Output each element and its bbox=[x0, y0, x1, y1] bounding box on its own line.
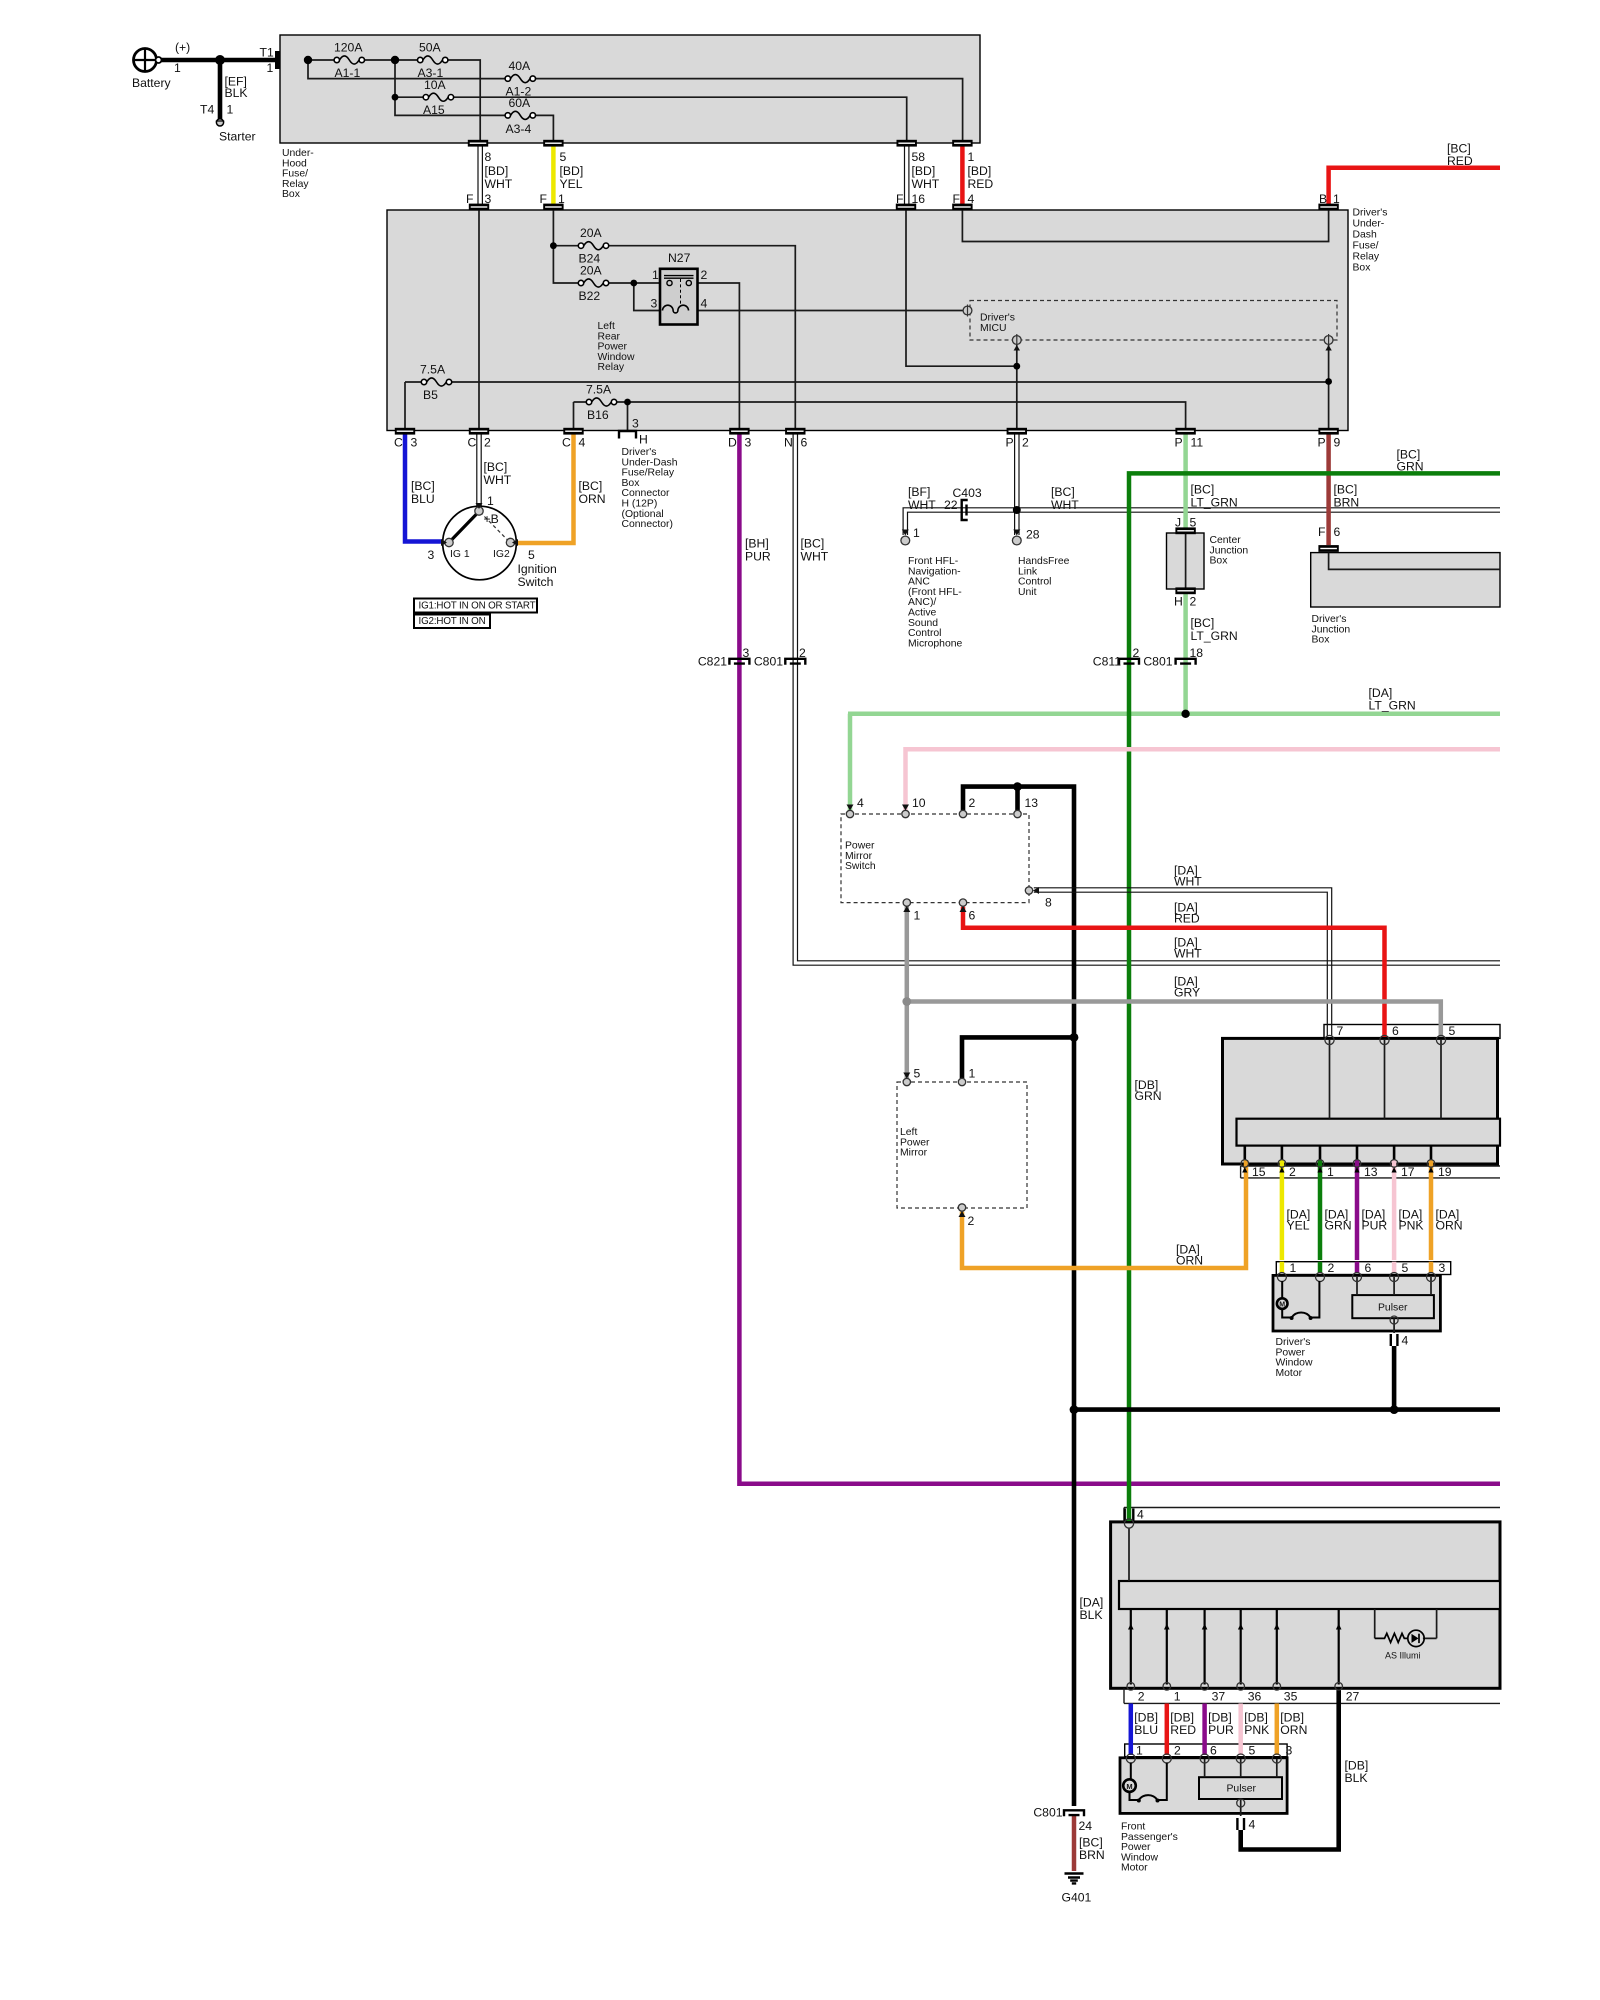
svg-text:1: 1 bbox=[1174, 1690, 1181, 1704]
svg-text:1: 1 bbox=[1327, 1165, 1334, 1179]
svg-text:[BC]: [BC] bbox=[801, 537, 825, 551]
svg-text:ORN: ORN bbox=[1280, 1723, 1307, 1737]
svg-text:5: 5 bbox=[1402, 1261, 1409, 1275]
svg-text:Box: Box bbox=[1210, 556, 1229, 567]
svg-text:Ignition: Ignition bbox=[518, 562, 557, 576]
svg-text:[BC]: [BC] bbox=[411, 479, 435, 493]
svg-text:BLU: BLU bbox=[1134, 1723, 1158, 1737]
svg-text:24: 24 bbox=[1079, 1819, 1093, 1833]
svg-text:B5: B5 bbox=[423, 388, 438, 402]
svg-text:C: C bbox=[394, 436, 403, 450]
svg-text:IG1:HOT IN ON OR START: IG1:HOT IN ON OR START bbox=[419, 601, 536, 612]
svg-text:F: F bbox=[540, 192, 547, 206]
svg-text:Microphone: Microphone bbox=[908, 638, 963, 649]
svg-text:BRN: BRN bbox=[1334, 496, 1360, 510]
svg-text:3: 3 bbox=[411, 436, 418, 450]
svg-text:Connector): Connector) bbox=[622, 519, 673, 530]
svg-text:3: 3 bbox=[651, 297, 658, 311]
svg-text:H: H bbox=[639, 433, 648, 447]
svg-text:16: 16 bbox=[912, 192, 926, 206]
svg-text:28: 28 bbox=[1026, 528, 1040, 542]
svg-text:27: 27 bbox=[1346, 1690, 1360, 1704]
svg-text:36: 36 bbox=[1248, 1690, 1262, 1704]
svg-text:3: 3 bbox=[1286, 1744, 1293, 1758]
svg-text:B: B bbox=[1319, 192, 1327, 206]
svg-text:B16: B16 bbox=[587, 408, 609, 422]
svg-text:[BC]: [BC] bbox=[484, 460, 508, 474]
svg-text:MICU: MICU bbox=[980, 323, 1007, 334]
svg-text:Relay: Relay bbox=[598, 362, 625, 373]
svg-text:4: 4 bbox=[579, 436, 586, 450]
svg-text:1: 1 bbox=[969, 1067, 976, 1081]
svg-text:13: 13 bbox=[1025, 796, 1039, 810]
svg-text:2: 2 bbox=[1328, 1261, 1335, 1275]
svg-text:IG2: IG2 bbox=[493, 549, 510, 560]
svg-text:RED: RED bbox=[1170, 1723, 1196, 1737]
svg-text:4: 4 bbox=[857, 796, 864, 810]
svg-text:WHT: WHT bbox=[1174, 875, 1202, 889]
svg-text:1: 1 bbox=[267, 61, 274, 75]
svg-text:[BD]: [BD] bbox=[912, 164, 936, 178]
svg-text:2: 2 bbox=[1174, 1744, 1181, 1758]
svg-text:RED: RED bbox=[1174, 912, 1200, 926]
svg-text:G401: G401 bbox=[1062, 1891, 1092, 1905]
svg-text:F: F bbox=[896, 192, 903, 206]
svg-text:22: 22 bbox=[944, 498, 958, 512]
svg-text:2: 2 bbox=[799, 646, 806, 660]
svg-text:5: 5 bbox=[1449, 1024, 1456, 1038]
svg-text:3: 3 bbox=[632, 417, 639, 431]
svg-text:F: F bbox=[466, 192, 473, 206]
svg-text:6: 6 bbox=[1210, 1744, 1217, 1758]
svg-text:C: C bbox=[468, 436, 477, 450]
svg-text:RED: RED bbox=[968, 177, 994, 191]
svg-text:2: 2 bbox=[1190, 595, 1197, 609]
svg-text:Box: Box bbox=[282, 189, 301, 200]
svg-text:1: 1 bbox=[227, 103, 234, 117]
svg-text:Relay: Relay bbox=[1353, 252, 1380, 263]
svg-text:Battery: Battery bbox=[132, 76, 172, 90]
svg-text:A1-1: A1-1 bbox=[335, 66, 361, 80]
svg-text:Driver's: Driver's bbox=[1353, 208, 1388, 219]
svg-text:PNK: PNK bbox=[1244, 1723, 1269, 1737]
svg-text:A3-4: A3-4 bbox=[506, 122, 532, 136]
svg-text:ORN: ORN bbox=[579, 492, 606, 506]
svg-text:1: 1 bbox=[968, 150, 975, 164]
svg-text:J: J bbox=[1175, 516, 1181, 530]
svg-text:GRN: GRN bbox=[1135, 1089, 1162, 1103]
svg-text:WHT: WHT bbox=[908, 498, 936, 512]
svg-text:M: M bbox=[1279, 1301, 1285, 1308]
svg-text:120A: 120A bbox=[334, 41, 363, 55]
svg-text:4: 4 bbox=[1137, 1508, 1144, 1522]
svg-text:Unit: Unit bbox=[1018, 587, 1037, 598]
svg-text:2: 2 bbox=[1289, 1165, 1296, 1179]
svg-text:BLK: BLK bbox=[225, 86, 248, 100]
svg-text:Under-: Under- bbox=[1353, 219, 1385, 230]
svg-text:RED: RED bbox=[1447, 154, 1473, 168]
svg-text:P: P bbox=[1318, 436, 1326, 450]
svg-text:5: 5 bbox=[528, 548, 535, 562]
svg-text:IG 1: IG 1 bbox=[450, 549, 470, 560]
svg-text:BLU: BLU bbox=[411, 492, 435, 506]
svg-text:11: 11 bbox=[1191, 436, 1204, 450]
svg-text:6: 6 bbox=[1365, 1261, 1372, 1275]
svg-text:BLK: BLK bbox=[1345, 1771, 1368, 1785]
svg-text:Motor: Motor bbox=[1121, 1863, 1148, 1874]
svg-text:1: 1 bbox=[174, 61, 181, 75]
svg-text:Motor: Motor bbox=[1276, 1368, 1303, 1379]
svg-text:13: 13 bbox=[1364, 1165, 1378, 1179]
svg-text:5: 5 bbox=[1190, 516, 1197, 530]
svg-text:2: 2 bbox=[968, 1214, 975, 1228]
svg-text:PUR: PUR bbox=[1208, 1723, 1234, 1737]
svg-text:N: N bbox=[784, 436, 793, 450]
svg-text:2: 2 bbox=[969, 796, 976, 810]
svg-text:D: D bbox=[728, 436, 737, 450]
svg-text:60A: 60A bbox=[509, 96, 532, 110]
svg-text:[BH]: [BH] bbox=[745, 537, 769, 551]
svg-text:37: 37 bbox=[1212, 1690, 1226, 1704]
svg-text:20A: 20A bbox=[580, 264, 603, 278]
svg-text:[BC]: [BC] bbox=[1051, 485, 1075, 499]
svg-text:Switch: Switch bbox=[845, 861, 876, 872]
svg-text:1: 1 bbox=[487, 494, 494, 508]
svg-text:A15: A15 bbox=[423, 103, 445, 117]
svg-text:C: C bbox=[562, 436, 571, 450]
svg-text:1: 1 bbox=[558, 192, 565, 206]
svg-text:10A: 10A bbox=[424, 78, 447, 92]
svg-text:[BD]: [BD] bbox=[485, 164, 509, 178]
svg-text:1: 1 bbox=[1136, 1744, 1143, 1758]
svg-text:5: 5 bbox=[560, 150, 567, 164]
svg-text:20A: 20A bbox=[580, 226, 603, 240]
svg-text:F: F bbox=[1318, 525, 1325, 539]
svg-text:1: 1 bbox=[914, 909, 921, 923]
svg-text:18: 18 bbox=[1190, 646, 1204, 660]
svg-text:9: 9 bbox=[1334, 436, 1341, 450]
svg-text:5: 5 bbox=[914, 1067, 921, 1081]
svg-text:PUR: PUR bbox=[745, 550, 771, 564]
svg-text:WHT: WHT bbox=[1051, 498, 1079, 512]
svg-text:PNK: PNK bbox=[1399, 1219, 1424, 1233]
svg-text:Switch: Switch bbox=[518, 575, 554, 589]
svg-text:1: 1 bbox=[1290, 1261, 1297, 1275]
svg-text:[BC]: [BC] bbox=[579, 479, 603, 493]
svg-text:4: 4 bbox=[968, 192, 975, 206]
svg-text:GRY: GRY bbox=[1174, 986, 1200, 1000]
svg-text:6: 6 bbox=[1334, 525, 1341, 539]
svg-text:BRN: BRN bbox=[1079, 1848, 1105, 1862]
svg-text:C801: C801 bbox=[1033, 1806, 1062, 1820]
svg-text:WHT: WHT bbox=[912, 177, 940, 191]
svg-text:1: 1 bbox=[1333, 192, 1340, 206]
svg-text:LT_GRN: LT_GRN bbox=[1191, 629, 1238, 643]
svg-text:C821: C821 bbox=[698, 655, 727, 669]
svg-text:3: 3 bbox=[745, 436, 752, 450]
svg-text:8: 8 bbox=[1045, 896, 1052, 910]
svg-text:50A: 50A bbox=[419, 41, 442, 55]
svg-text:10: 10 bbox=[912, 796, 926, 810]
svg-text:19: 19 bbox=[1438, 1165, 1452, 1179]
svg-text:3: 3 bbox=[428, 548, 435, 562]
svg-text:7.5A: 7.5A bbox=[586, 383, 612, 397]
svg-text:40A: 40A bbox=[509, 59, 532, 73]
svg-text:M: M bbox=[1126, 1782, 1132, 1791]
svg-text:2: 2 bbox=[1022, 436, 1029, 450]
svg-text:(+): (+) bbox=[175, 41, 190, 55]
svg-text:BLK: BLK bbox=[1080, 1608, 1103, 1622]
svg-text:C801: C801 bbox=[1143, 655, 1172, 669]
svg-text:Fuse/: Fuse/ bbox=[1353, 241, 1379, 252]
svg-text:Box: Box bbox=[1312, 635, 1331, 646]
svg-text:ORN: ORN bbox=[1436, 1219, 1463, 1233]
svg-text:3: 3 bbox=[485, 192, 492, 206]
svg-text:WHT: WHT bbox=[1174, 947, 1202, 961]
svg-text:2: 2 bbox=[701, 268, 708, 282]
svg-text:AS Illumi: AS Illumi bbox=[1385, 1651, 1421, 1661]
svg-text:2: 2 bbox=[484, 436, 491, 450]
svg-text:35: 35 bbox=[1284, 1690, 1298, 1704]
svg-text:WHT: WHT bbox=[801, 550, 829, 564]
svg-text:7.5A: 7.5A bbox=[420, 363, 446, 377]
svg-text:N27: N27 bbox=[668, 251, 691, 265]
svg-text:GRN: GRN bbox=[1325, 1219, 1352, 1233]
svg-text:2: 2 bbox=[1133, 646, 1140, 660]
svg-text:1: 1 bbox=[913, 526, 920, 540]
svg-text:58: 58 bbox=[912, 150, 926, 164]
svg-text:6: 6 bbox=[801, 436, 808, 450]
svg-text:4: 4 bbox=[1402, 1334, 1409, 1348]
svg-text:LT_GRN: LT_GRN bbox=[1191, 496, 1238, 510]
svg-text:P: P bbox=[1006, 436, 1014, 450]
svg-text:GRN: GRN bbox=[1397, 460, 1424, 474]
svg-text:YEL: YEL bbox=[1287, 1219, 1310, 1233]
svg-text:ORN: ORN bbox=[1176, 1254, 1203, 1268]
svg-text:F: F bbox=[953, 192, 960, 206]
svg-text:H: H bbox=[1174, 595, 1183, 609]
svg-text:17: 17 bbox=[1401, 1165, 1415, 1179]
svg-text:P: P bbox=[1175, 436, 1183, 450]
svg-text:8: 8 bbox=[485, 150, 492, 164]
svg-text:4: 4 bbox=[701, 297, 708, 311]
svg-text:IG2:HOT IN ON: IG2:HOT IN ON bbox=[419, 616, 486, 627]
svg-text:WHT: WHT bbox=[485, 177, 513, 191]
svg-text:2: 2 bbox=[1138, 1690, 1145, 1704]
svg-text:+B: +B bbox=[484, 512, 499, 526]
svg-text:Starter: Starter bbox=[219, 130, 256, 144]
svg-text:WHT: WHT bbox=[484, 473, 512, 487]
svg-text:1: 1 bbox=[652, 268, 659, 282]
svg-text:[BF]: [BF] bbox=[908, 485, 930, 499]
svg-text:6: 6 bbox=[1392, 1024, 1399, 1038]
svg-text:15: 15 bbox=[1252, 1165, 1266, 1179]
svg-text:Mirror: Mirror bbox=[900, 1148, 928, 1159]
svg-text:[BC]: [BC] bbox=[1334, 483, 1358, 497]
svg-text:Dash: Dash bbox=[1353, 230, 1377, 241]
svg-text:[BD]: [BD] bbox=[968, 164, 992, 178]
svg-text:Box: Box bbox=[1353, 263, 1372, 274]
svg-text:[BC]: [BC] bbox=[1191, 616, 1215, 630]
svg-text:YEL: YEL bbox=[560, 177, 583, 191]
svg-text:[BD]: [BD] bbox=[560, 164, 584, 178]
svg-text:Pulser: Pulser bbox=[1378, 1303, 1408, 1314]
svg-text:3: 3 bbox=[1439, 1261, 1446, 1275]
svg-text:6: 6 bbox=[969, 909, 976, 923]
svg-text:LT_GRN: LT_GRN bbox=[1369, 699, 1416, 713]
svg-text:T4: T4 bbox=[200, 103, 214, 117]
svg-text:7: 7 bbox=[1337, 1024, 1344, 1038]
svg-text:Pulser: Pulser bbox=[1227, 1784, 1257, 1795]
svg-text:3: 3 bbox=[743, 646, 750, 660]
svg-text:C801: C801 bbox=[754, 655, 783, 669]
svg-text:[BC]: [BC] bbox=[1191, 483, 1215, 497]
svg-text:5: 5 bbox=[1249, 1744, 1256, 1758]
svg-text:T1: T1 bbox=[260, 46, 274, 60]
svg-text:B22: B22 bbox=[579, 289, 601, 303]
svg-text:4: 4 bbox=[1249, 1818, 1256, 1832]
svg-text:C811: C811 bbox=[1093, 655, 1121, 669]
svg-text:PUR: PUR bbox=[1362, 1219, 1388, 1233]
